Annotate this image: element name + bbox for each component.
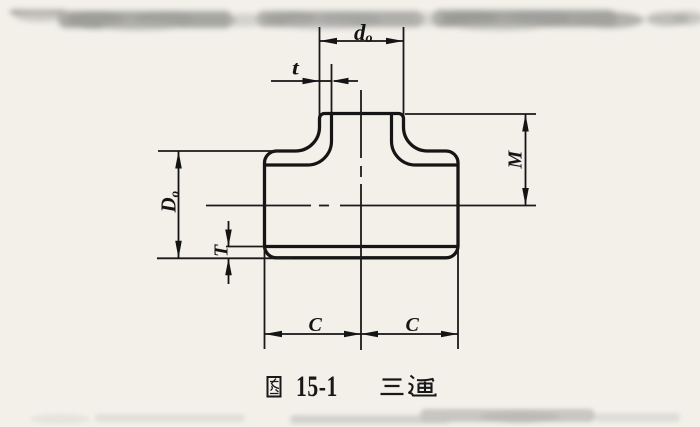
d0 extension line right — [403, 27, 405, 122]
svg-text:t: t — [292, 56, 300, 79]
caption char 通 — [409, 376, 436, 396]
svg-text:M: M — [505, 150, 527, 170]
M extension line top — [405, 113, 536, 115]
caption text 15-1 — [296, 370, 338, 403]
d0 extension line left — [319, 27, 321, 116]
svg-text:T: T — [211, 244, 233, 257]
D0 extension line bottom — [157, 257, 292, 259]
M dimension line with arrows — [522, 114, 529, 206]
svg-text:C: C — [309, 314, 323, 336]
C extension line right (right wall extended) — [457, 248, 459, 349]
caption char 三 — [381, 380, 404, 395]
tee body inner top-left line with branch inner fillet — [265, 114, 332, 166]
D0 dimension line with arrows — [175, 151, 182, 258]
tee body inner top-right line with branch inner fillet — [392, 114, 459, 166]
T dimension arrows (outside) — [225, 221, 232, 284]
label t — [292, 56, 300, 79]
tee body inner bottom line — [265, 245, 459, 248]
caption char 图 — [268, 377, 281, 397]
C extension line left (left wall extended) — [264, 248, 266, 349]
t dimension arrows (outside) — [271, 78, 358, 85]
vertical centerline — [360, 90, 362, 350]
C dimension line with arrows — [265, 331, 459, 338]
svg-text:C: C — [406, 314, 420, 336]
D0 extension line top — [158, 150, 281, 152]
tee body outer contour — [265, 114, 459, 258]
scan smudge band bottom — [30, 409, 680, 424]
horizontal centerline — [206, 205, 536, 207]
caption: 图 15-1 三通 — [268, 370, 436, 403]
svg-text:15-1: 15-1 — [296, 370, 338, 403]
T extension line top — [226, 246, 264, 248]
d0 dimension line with arrows — [320, 38, 404, 45]
scan smudge band top — [10, 10, 700, 31]
t extension line (branch inner wall) — [331, 64, 333, 114]
